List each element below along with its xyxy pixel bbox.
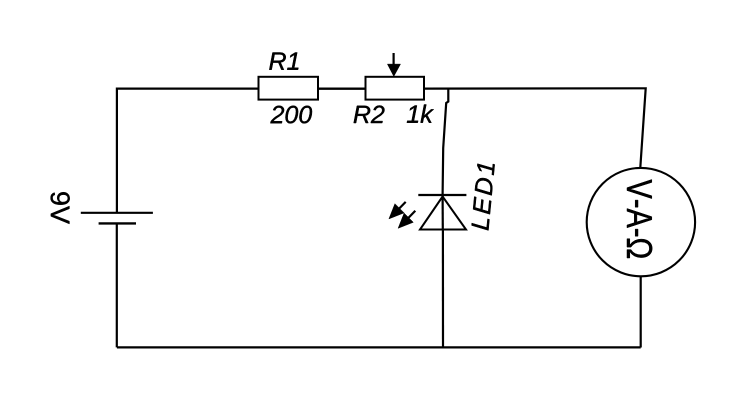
wire through LED [442,195,444,230]
label R2 [354,106,385,124]
light arrow 2 of LED1 [398,211,415,229]
label R1 [269,53,298,70]
wire R1 to R2 [318,88,366,90]
meter M1 [587,168,695,276]
label 200 [270,106,312,124]
label V-A-Ω [627,180,652,259]
battery B1 long plate [81,212,153,214]
resistor R1 [259,77,319,100]
wiper arrow of R2 [387,53,400,76]
potentiometer R2 [366,77,425,100]
wire junction to LED top [443,89,449,195]
LED LED1 triangle [420,197,466,230]
wire top-left (battery top to R1) [117,89,259,213]
battery B1 short plate [99,222,136,224]
bottom wire [117,346,641,348]
wire R2 to top-right corner and drop to meter [424,88,646,167]
wire meter to bottom [640,276,642,347]
label 1k [407,105,434,123]
light arrow 1 of LED1 [389,202,406,219]
label 9V [51,192,70,224]
wire battery bottom to bottom-left corner [116,224,118,348]
LED LED1 cathode bar [418,194,466,196]
label LED1 [472,164,495,231]
wire LED bottom to bottom wire [442,230,444,348]
